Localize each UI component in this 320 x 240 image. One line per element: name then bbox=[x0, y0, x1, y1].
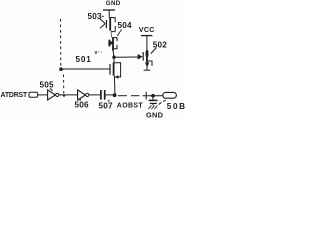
label 503 bbox=[88, 12, 104, 21]
power VCC rail bbox=[141, 36, 152, 51]
svg-text:VCC: VCC bbox=[139, 25, 155, 34]
transistor Q504 bbox=[108, 37, 117, 57]
wire capacitor to boost node bbox=[106, 94, 113, 96]
label 50B bbox=[159, 100, 187, 111]
capacitor C507 bbox=[101, 90, 105, 100]
svg-text:GND: GND bbox=[146, 110, 164, 119]
svg-text:ATDRST: ATDRST bbox=[1, 92, 28, 99]
wire Q501 gate lead bbox=[61, 68, 110, 70]
svg-text:504: 504 bbox=[118, 21, 133, 30]
inverter U506 bbox=[78, 90, 89, 100]
svg-text:503: 503 bbox=[88, 12, 103, 21]
transistor Q501 bbox=[110, 57, 121, 96]
node junction at output cap bbox=[151, 94, 155, 98]
terminal 50B pad bbox=[163, 92, 177, 98]
transistor Q503 bbox=[100, 17, 115, 38]
svg-text:502: 502 bbox=[153, 40, 168, 49]
capacitor C50B to ground bbox=[149, 96, 158, 106]
svg-text:506: 506 bbox=[75, 101, 90, 110]
node N1 junction bbox=[112, 56, 115, 59]
transistor Q502 bbox=[138, 50, 152, 70]
wire inverter 505 to inverter 506 bbox=[59, 94, 78, 96]
wire node to Q502 gate bbox=[114, 56, 138, 58]
inverter U505 bbox=[48, 90, 59, 100]
wire AOBST net (dashed) bbox=[118, 95, 163, 97]
svg-text:v··: v·· bbox=[95, 50, 103, 56]
label 505 bbox=[40, 80, 55, 91]
label 504 bbox=[117, 21, 132, 36]
svg-text:GND: GND bbox=[106, 0, 121, 7]
svg-text:507: 507 bbox=[99, 102, 114, 111]
node junction small on AOBST wire bbox=[63, 94, 65, 96]
node boost junction bbox=[113, 93, 117, 97]
svg-text:AOBST: AOBST bbox=[117, 102, 144, 109]
label 502 bbox=[151, 40, 168, 53]
ground (bottom) bbox=[148, 105, 157, 109]
ground GND (top rail) bbox=[103, 10, 115, 18]
label 507 bbox=[99, 100, 114, 111]
node junction on Q501 gate lead bbox=[59, 67, 63, 71]
svg-text:501: 501 bbox=[76, 55, 92, 64]
wire inverter 506 to capacitor 507 bbox=[89, 94, 100, 96]
wire Q502 source drop tick bbox=[145, 92, 147, 100]
label 506 bbox=[75, 99, 90, 110]
wire ATDRST to inverter 505 bbox=[38, 94, 48, 96]
terminal ATDRST bbox=[29, 92, 38, 97]
wire dashed riser (upper, net to Q501 gate node) bbox=[60, 19, 62, 68]
svg-text:50B: 50B bbox=[167, 102, 185, 111]
wire dashed riser (lower, to AOBST net) bbox=[63, 75, 65, 95]
svg-text:505: 505 bbox=[40, 80, 55, 89]
